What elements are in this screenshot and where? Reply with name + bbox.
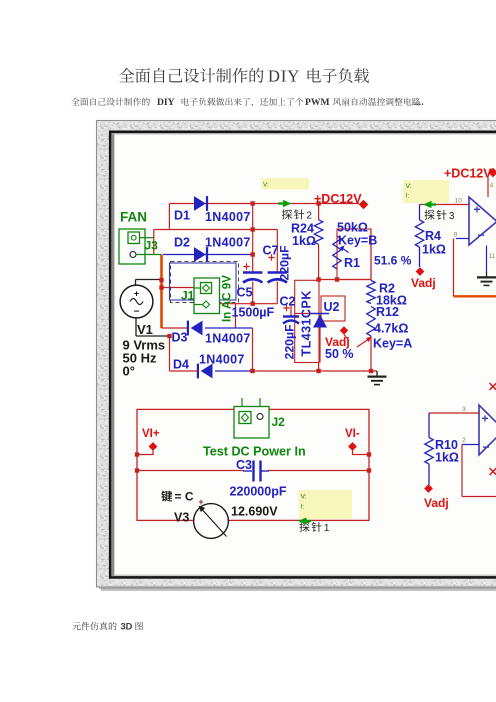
svg-text:1N4007: 1N4007 [205,332,251,346]
svg-text:12.690V: 12.690V [231,505,278,519]
svg-text:10: 10 [455,198,463,205]
svg-text:VI+: VI+ [142,428,160,440]
svg-text:4.7kΩ: 4.7kΩ [374,322,408,336]
svg-text:3D: 3D [121,622,133,632]
svg-text:220000pF: 220000pF [230,485,287,499]
svg-text:Vadj: Vadj [411,276,436,290]
svg-text:C3: C3 [236,458,252,472]
svg-text:4: 4 [490,183,494,190]
svg-text:D2: D2 [174,236,190,250]
svg-text:R4: R4 [425,229,441,243]
svg-text:+: + [134,289,139,299]
svg-text:I:: I: [301,504,305,511]
svg-text:VI-: VI- [345,428,360,440]
svg-text:1N4007: 1N4007 [199,353,245,367]
svg-text:PWM: PWM [305,97,330,108]
svg-text:C2: C2 [280,295,296,309]
svg-text:1kΩ: 1kΩ [292,234,316,248]
svg-text:1N4007: 1N4007 [205,236,251,250]
svg-text:220µF: 220µF [283,324,297,360]
svg-text:1kΩ: 1kΩ [435,451,459,465]
svg-text:= C: = C [175,490,194,504]
svg-text:DIY: DIY [157,97,175,108]
svg-text:1N4007: 1N4007 [205,210,251,224]
svg-text:9: 9 [454,232,458,239]
svg-text:0°: 0° [123,364,135,379]
svg-text:C5: C5 [237,286,253,300]
svg-text:V:: V: [301,494,307,501]
svg-text:TL431CPK: TL431CPK [300,290,314,356]
svg-text:Vadj: Vadj [424,496,449,510]
svg-text:−: − [478,228,485,242]
svg-text:11: 11 [489,253,496,260]
svg-text:C7: C7 [263,244,279,258]
svg-text:50 %: 50 % [325,347,354,361]
svg-text:D1: D1 [174,209,190,223]
svg-text:V1: V1 [137,322,153,337]
svg-text:D4: D4 [173,358,189,372]
svg-text:3: 3 [449,211,455,222]
svg-text:U2: U2 [324,300,340,314]
svg-text:220µF: 220µF [278,245,292,281]
svg-text:1kΩ: 1kΩ [422,243,446,257]
svg-text:Key=A: Key=A [373,337,412,351]
svg-text:V:: V: [263,182,269,189]
svg-text:+: + [198,497,203,507]
svg-text:R12: R12 [376,305,399,319]
svg-text:R1: R1 [344,256,360,270]
svg-text:Test DC Power In: Test DC Power In [203,445,306,459]
svg-text:+: + [474,203,481,217]
svg-text:D3: D3 [172,331,188,345]
svg-text:51.6 %: 51.6 % [374,254,412,268]
svg-text:−: − [483,440,490,454]
svg-text:2: 2 [462,437,466,444]
svg-text:2: 2 [306,211,312,222]
svg-text:−: − [134,307,140,318]
svg-text:+DC12V: +DC12V [444,167,492,181]
svg-text:+: + [482,412,489,426]
svg-text:I:: I: [406,193,410,200]
svg-text:DIY: DIY [268,67,300,86]
svg-text:1500µF: 1500µF [232,306,275,320]
svg-text:+DC12V: +DC12V [314,192,362,206]
svg-text:V3: V3 [174,511,189,525]
svg-text:Key=B: Key=B [338,234,377,248]
svg-text:V:: V: [406,183,412,190]
svg-text:1: 1 [324,523,330,534]
svg-text:J1: J1 [181,289,195,303]
svg-text:50kΩ: 50kΩ [337,221,368,235]
svg-text:J2: J2 [272,415,286,429]
svg-text:FAN: FAN [120,210,147,225]
svg-text:3: 3 [462,406,466,413]
svg-text:....: .... [414,97,424,108]
svg-text:J3: J3 [145,239,159,253]
